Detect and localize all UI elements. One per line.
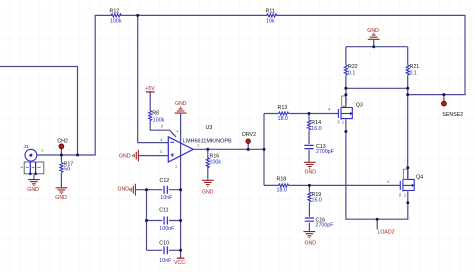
- svg-text:R11: R11: [266, 8, 275, 14]
- svg-text:16.0: 16.0: [311, 126, 321, 132]
- svg-text:2700pF: 2700pF: [316, 223, 335, 229]
- svg-text:C12: C12: [160, 178, 170, 184]
- svg-text:GND: GND: [367, 28, 379, 34]
- svg-text:10nF: 10nF: [159, 258, 172, 264]
- svg-text:100k: 100k: [110, 18, 122, 24]
- svg-text:5: 5: [161, 125, 163, 129]
- svg-text:SENSE2: SENSE2: [442, 112, 463, 118]
- svg-text:0.1: 0.1: [410, 71, 417, 77]
- svg-text:18.0: 18.0: [278, 116, 288, 122]
- svg-text:1: 1: [197, 143, 199, 147]
- svg-text:1,2,3: 1,2,3: [344, 97, 348, 104]
- svg-text:GND: GND: [175, 101, 187, 107]
- svg-text:C11: C11: [159, 208, 168, 214]
- svg-text:100k: 100k: [210, 159, 222, 165]
- svg-text:R18: R18: [277, 176, 287, 182]
- svg-text:0.1: 0.1: [348, 71, 355, 77]
- svg-text:Q3: Q3: [356, 102, 363, 108]
- svg-text:2: 2: [175, 165, 177, 169]
- svg-text:1: 1: [41, 148, 43, 152]
- svg-text:18.0: 18.0: [277, 188, 287, 194]
- svg-text:10k: 10k: [266, 19, 275, 25]
- svg-text:4: 4: [328, 108, 330, 112]
- svg-text:R8: R8: [152, 110, 159, 116]
- svg-text:GND: GND: [202, 190, 214, 196]
- svg-text:5A: 5A: [398, 193, 402, 197]
- svg-text:GND: GND: [305, 240, 317, 246]
- svg-text:3: 3: [160, 150, 162, 154]
- svg-text:LOAD2: LOAD2: [378, 230, 395, 236]
- svg-text:100k: 100k: [153, 117, 165, 123]
- svg-text:7,6: 7,6: [341, 120, 345, 124]
- svg-text:4: 4: [160, 138, 162, 142]
- svg-text:R21: R21: [410, 64, 420, 70]
- svg-text:DRV2: DRV2: [242, 132, 256, 138]
- svg-text:U3: U3: [206, 125, 213, 131]
- svg-text:GND: GND: [119, 154, 131, 160]
- svg-text:GND: GND: [305, 169, 317, 175]
- svg-text:50: 50: [64, 166, 70, 172]
- svg-text:J1: J1: [24, 144, 29, 149]
- svg-text:GND: GND: [55, 195, 67, 201]
- svg-text:+5V: +5V: [145, 86, 155, 92]
- svg-text:CH2: CH2: [57, 139, 68, 145]
- svg-text:R22: R22: [348, 64, 358, 70]
- svg-text:LMH6611MK/NOPB: LMH6611MK/NOPB: [183, 139, 232, 145]
- svg-text:R13: R13: [278, 105, 288, 111]
- svg-text:Q4: Q4: [416, 175, 423, 181]
- svg-text:16.0: 16.0: [312, 198, 322, 204]
- svg-text:1,2,3: 1,2,3: [406, 170, 410, 177]
- svg-text:7,6: 7,6: [403, 193, 407, 197]
- svg-text:GND: GND: [118, 186, 130, 192]
- svg-text:VCC-: VCC-: [174, 260, 187, 266]
- svg-text:C10: C10: [159, 241, 169, 247]
- svg-text:4: 4: [387, 180, 389, 184]
- svg-text:10nF: 10nF: [160, 195, 173, 201]
- svg-text:5A: 5A: [336, 120, 340, 124]
- svg-text:2700pF: 2700pF: [316, 149, 335, 155]
- svg-text:GND: GND: [27, 187, 39, 193]
- svg-text:R12: R12: [110, 9, 120, 15]
- svg-text:100nF: 100nF: [159, 226, 175, 232]
